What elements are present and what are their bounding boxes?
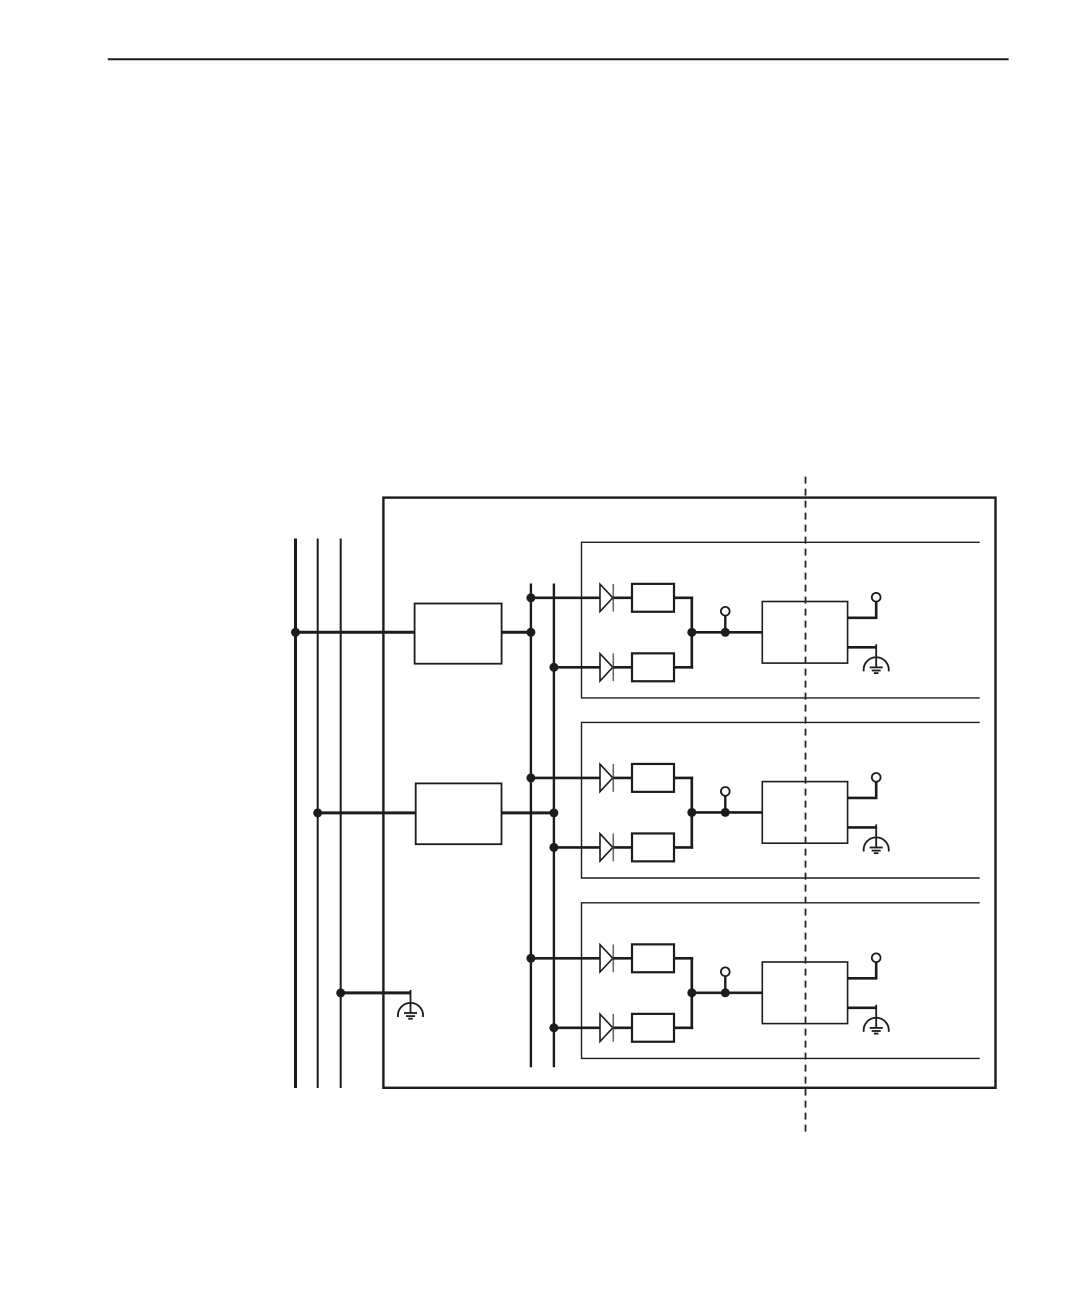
section divider (dashed) [805, 477, 807, 1134]
channel 3 box [582, 903, 980, 1059]
bus V1 (PS1 output rail) [530, 584, 532, 1068]
test point TP1 stem [724, 615, 726, 632]
node: junction bus V1 / channel 3 upper wire [526, 954, 535, 963]
resistor R21 [632, 764, 674, 792]
resistor R31 [632, 944, 674, 972]
channel 1 box [582, 542, 980, 698]
wire: join to module U1 input [692, 631, 763, 634]
bus V2 (PS2 output rail) [553, 584, 555, 1068]
wire: U1 ground stub [848, 646, 877, 649]
wire: R11 to join [674, 596, 693, 599]
node: junction bus V2 / channel 1 lower wire [549, 663, 558, 672]
node: diode-OR output junction channel 3 [687, 988, 696, 997]
wire: R22 to join [674, 846, 693, 849]
node: junction bus L1 [291, 628, 300, 637]
wire: R21 to join [674, 777, 693, 780]
diode D21 [600, 764, 613, 792]
node: test point junction channel 3 [721, 988, 730, 997]
test point TP2 terminal [721, 787, 730, 796]
wire: join to module U2 input [692, 811, 763, 814]
ground (protective earth, enclosure) [398, 990, 423, 1019]
node: diode-OR output junction channel 1 [687, 628, 696, 637]
wire: U3 output stub to terminal [848, 977, 877, 980]
wire: R31 to join [674, 957, 693, 960]
wire: D11 cathode to resistor R11 [613, 596, 632, 599]
node: junction bus V2 / channel 3 lower wire [549, 1023, 558, 1032]
test point TP3 terminal [721, 967, 730, 976]
module U1 [762, 602, 847, 664]
node: test point junction channel 1 [721, 628, 730, 637]
wire: bus V2 to diode D12 [554, 666, 600, 669]
wire: D32 cathode to resistor R32 [613, 1026, 632, 1029]
wire: U1 output stub to terminal [848, 616, 877, 619]
wire: bus L2 to power supply PS2 [318, 811, 416, 814]
node: junction bus V1 / channel 2 upper wire [526, 773, 535, 782]
bus line L1 [294, 539, 297, 1089]
ground channel 1 [864, 644, 889, 673]
wire: R32 to join [674, 1026, 693, 1029]
resistor R22 [632, 833, 674, 861]
wire: U3 ground stub [848, 1006, 877, 1009]
node: junction bus V1 / channel 1 upper wire [526, 593, 535, 602]
power supply PS2 [416, 783, 502, 844]
wire: bus V2 to diode D22 [554, 846, 600, 849]
diode D31 [600, 944, 613, 972]
module U3 [762, 962, 847, 1024]
wire: bus L3 to earth [341, 991, 411, 994]
test point TP3 stem [724, 976, 726, 993]
resistor R11 [632, 584, 674, 612]
diode D32 [600, 1014, 613, 1042]
wire: U2 ground stub [848, 826, 877, 829]
module U2 [762, 782, 847, 844]
node: junction bus L3 [336, 988, 345, 997]
diode D11 [600, 584, 613, 612]
wire: D12 cathode to resistor R12 [613, 666, 632, 669]
wire: vertical join of R21 and R22 outputs [690, 777, 693, 849]
node: junction bus V2 / channel 2 lower wire [549, 843, 558, 852]
node: junction bus V2 / PS2 wire [549, 808, 558, 817]
wire: vertical join of R11 and R12 outputs [690, 596, 693, 668]
wire: bus V1 to diode D11 [531, 596, 600, 599]
wire: PS1 output to bus V1 [502, 631, 531, 634]
output terminal channel 2 [872, 773, 881, 782]
wire: bus V1 to diode D31 [531, 957, 600, 960]
wire: bus V1 to diode D21 [531, 777, 600, 780]
output terminal channel 1 [872, 593, 881, 602]
top horizontal rule [108, 58, 1009, 60]
power supply PS1 [415, 604, 502, 664]
wire: D21 cathode to resistor R21 [613, 777, 632, 780]
enclosure box [383, 498, 995, 1088]
wire: bus L1 to power supply PS1 [296, 631, 415, 634]
wire: R12 to join [674, 666, 693, 669]
diode D12 [600, 653, 613, 681]
wire: join to module U3 input [692, 991, 763, 994]
node: junction bus L2 [313, 808, 322, 817]
test point TP2 stem [724, 796, 726, 813]
ground channel 2 [864, 824, 889, 853]
ground channel 3 [864, 1005, 889, 1034]
wire: D22 cathode to resistor R22 [613, 846, 632, 849]
node: junction bus V1 / PS1 wire [526, 628, 535, 637]
output terminal channel 3 [872, 953, 881, 962]
wire: D31 cathode to resistor R31 [613, 957, 632, 960]
wire: vertical join of R31 and R32 outputs [690, 957, 693, 1029]
resistor R12 [632, 653, 674, 681]
wire: PS2 output to bus V2 [502, 811, 554, 814]
wire: bus V2 to diode D32 [554, 1026, 600, 1029]
bus line L2 [317, 539, 319, 1089]
wire: U2 output stub to terminal [848, 797, 877, 800]
node: test point junction channel 2 [721, 808, 730, 817]
resistor R32 [632, 1014, 674, 1042]
channel 2 box [582, 722, 980, 878]
test point TP1 terminal [721, 607, 730, 616]
bus line L3 [340, 539, 342, 1089]
diode D22 [600, 834, 613, 862]
node: diode-OR output junction channel 2 [687, 808, 696, 817]
